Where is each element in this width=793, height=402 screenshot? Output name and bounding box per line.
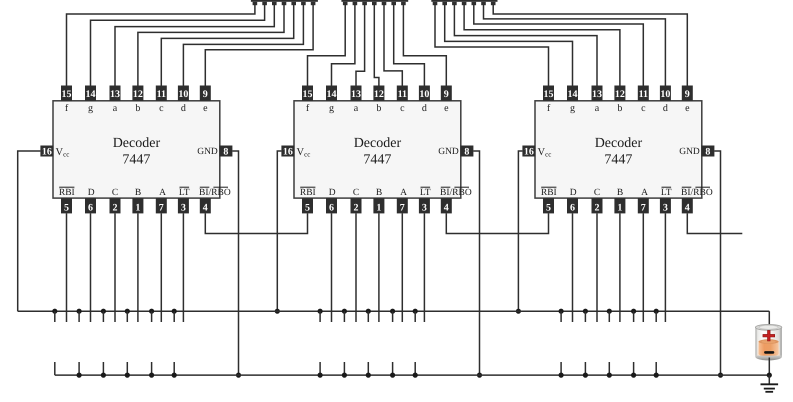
wire J3.6 to U3 pin 10: [484, 5, 666, 86]
svg-text:15: 15: [303, 89, 313, 100]
7-segment display connector J3 (edge bar): [431, 0, 497, 2]
wire +V bus to battery positive: [768, 311, 770, 324]
junction/stub on +V bus (U1 col 5): [149, 309, 154, 314]
J3 pin 7: [491, 2, 496, 5]
svg-text:A: A: [400, 188, 407, 198]
stub/junction on ground bus (U1): [126, 362, 128, 375]
J1 pin 6: [301, 2, 306, 5]
svg-text:6: 6: [329, 203, 334, 214]
junction/stub on +V bus (U2 col 4): [390, 309, 395, 314]
wire J1.5 to U1 pin 11: [161, 5, 293, 86]
svg-text:C: C: [112, 188, 118, 198]
svg-text:LT: LT: [661, 188, 672, 198]
J2 pin 3: [362, 2, 367, 5]
J3 pin 4: [462, 2, 467, 5]
svg-text:1: 1: [376, 203, 381, 214]
svg-text:b: b: [617, 103, 622, 114]
svg-text:9: 9: [444, 89, 449, 100]
junction U2 Vcc on +V bus: [275, 309, 280, 314]
J1 pin 2: [262, 2, 267, 5]
J2 pin 6: [391, 2, 396, 5]
junction U3 GND on ground bus: [718, 373, 723, 378]
stub/junction on ground bus (U2): [343, 362, 345, 375]
svg-text:GND: GND: [679, 147, 700, 157]
svg-text:e: e: [203, 103, 208, 114]
J1 pin 4: [282, 2, 287, 5]
svg-text:A: A: [641, 188, 648, 198]
wire U3 pin 4 BI/RBO stub: [687, 213, 742, 233]
wire U1 pin 7 down: [160, 213, 162, 322]
wire U3 pin 1 down: [619, 213, 621, 322]
decoder U3 7447 body: [535, 101, 702, 198]
wire U2 pin 2 down: [355, 213, 357, 322]
junction/stub on +V bus (U1 col 2): [77, 309, 82, 314]
ground symbol: [761, 383, 779, 385]
wire J3.1 to U3 pin 15: [435, 5, 549, 86]
J3 pin 6: [481, 2, 486, 5]
svg-text:d: d: [181, 103, 186, 114]
U3 pin 9 (e): [682, 86, 693, 101]
wire J1.6 to U1 pin 10: [183, 5, 303, 86]
svg-text:12: 12: [374, 89, 384, 100]
wire U2 pin 1 down: [378, 213, 380, 322]
wire J3.2 to U3 pin 14: [445, 5, 573, 86]
junction/stub on +V bus (U3 col 1): [559, 309, 564, 314]
svg-text:a: a: [113, 103, 118, 114]
ground bus left end riser: [54, 362, 56, 375]
stub/junction on ground bus (U1): [78, 362, 80, 375]
U2 pin 3 (LT): [419, 198, 430, 213]
U2 pin 10 (d): [419, 86, 430, 101]
svg-text:B: B: [135, 188, 141, 198]
junction/stub on +V bus (U1 col 6): [172, 309, 177, 314]
svg-text:GND: GND: [197, 147, 218, 157]
svg-text:7447: 7447: [363, 153, 391, 168]
J1 pin 3: [272, 2, 277, 5]
U2 pin 8 (GND): [460, 146, 473, 157]
svg-text:16: 16: [283, 147, 293, 158]
svg-text:14: 14: [568, 89, 578, 100]
U3 pin 2 (C): [592, 198, 603, 213]
wire J1.7 to U1 pin 9: [205, 5, 313, 86]
svg-text:RBI: RBI: [59, 188, 75, 198]
U1 pin 7 (A): [156, 198, 167, 213]
svg-text:g: g: [329, 103, 334, 114]
svg-text:12: 12: [133, 89, 143, 100]
svg-text:7: 7: [400, 203, 405, 214]
U1 pin 14 (g): [85, 86, 96, 101]
U2 pin 1 (B): [373, 198, 384, 213]
svg-text:2: 2: [113, 203, 118, 214]
stub/junction on ground bus (U2): [392, 362, 394, 375]
wire J2.5 to U2 pin 11: [384, 5, 402, 86]
svg-text:8: 8: [223, 147, 228, 158]
wire J2.4 to U2 pin 12: [374, 5, 379, 86]
svg-text:15: 15: [62, 89, 72, 100]
wire J2.2 to U2 pin 14: [332, 5, 355, 86]
svg-text:b: b: [376, 103, 381, 114]
wire J3.3 to U3 pin 13: [454, 5, 597, 86]
svg-text:BI/RBO: BI/RBO: [440, 188, 472, 198]
svg-text:7447: 7447: [604, 153, 632, 168]
U2 pin 12 (b): [373, 86, 384, 101]
svg-text:12: 12: [615, 89, 625, 100]
wire U2 pin 8 GND to ground bus: [473, 151, 479, 375]
wire U2 pin 16 Vcc to +V bus: [277, 151, 281, 311]
junction/stub on +V bus (U1 col 1): [52, 309, 57, 314]
junction/stub on +V bus (U2 col 2): [342, 309, 347, 314]
wire U1 pin 16 Vcc to +V bus: [18, 151, 41, 311]
svg-text:3: 3: [181, 203, 186, 214]
svg-text:13: 13: [592, 89, 602, 100]
svg-text:LT: LT: [420, 188, 431, 198]
wire U2 pin 4 BI/RBO to U3 pin 5 RBI: [446, 213, 548, 233]
svg-text:D: D: [570, 188, 577, 198]
svg-text:c: c: [641, 103, 646, 114]
7-segment display connector J2 (edge bar): [341, 0, 408, 2]
svg-text:14: 14: [327, 89, 337, 100]
svg-text:c: c: [400, 103, 405, 114]
wire J1.4 to U1 pin 12: [138, 5, 284, 86]
U1 pin 4 (BI/RBO): [200, 198, 211, 213]
wire U2 pin 7 down: [401, 213, 403, 322]
J1 pin 1: [253, 2, 258, 5]
wire U1 pin 1 down: [137, 213, 139, 322]
svg-text:B: B: [617, 188, 623, 198]
U1 pin 9 (e): [200, 86, 211, 101]
U3 pin 1 (B): [614, 198, 625, 213]
stub/junction on ground bus (U2): [414, 362, 416, 375]
stub/junction on ground bus (U3): [560, 362, 562, 375]
svg-text:11: 11: [398, 89, 407, 100]
wire U2 pin 3 down: [423, 213, 425, 322]
U3 pin 11 (c): [638, 86, 649, 101]
junction/stub on +V bus (U3 col 5): [654, 309, 659, 314]
U2 pin 14 (g): [326, 86, 337, 101]
stub/junction on ground bus (U1): [102, 362, 104, 375]
junction U1 GND on ground bus: [236, 373, 241, 378]
U3 pin 8 (GND): [701, 146, 714, 157]
wire U3 pin 7 down: [642, 213, 644, 322]
svg-text:RBI: RBI: [541, 188, 557, 198]
svg-text:C: C: [353, 188, 359, 198]
svg-text:13: 13: [351, 89, 361, 100]
svg-text:7: 7: [159, 203, 164, 214]
svg-text:GND: GND: [438, 147, 459, 157]
svg-text:4: 4: [444, 203, 449, 214]
U1 pin 6 (D): [85, 198, 96, 213]
wire U1 pin 2 down: [114, 213, 116, 322]
svg-text:8: 8: [464, 147, 469, 158]
svg-text:d: d: [663, 103, 668, 114]
U2 pin 4 (BI/RBO): [441, 198, 452, 213]
J1 pin 5: [291, 2, 296, 5]
wire J3.4 to U3 pin 12: [464, 5, 620, 86]
U1 pin 12 (b): [132, 86, 143, 101]
U2 pin 2 (C): [351, 198, 362, 213]
wire U1 pin 3 down: [182, 213, 184, 322]
junction/stub on +V bus (U1 col 3): [101, 309, 106, 314]
svg-text:6: 6: [570, 203, 575, 214]
U1 pin 10 (d): [178, 86, 189, 101]
svg-text:3: 3: [663, 203, 668, 214]
junction U3 Vcc on +V bus: [516, 309, 521, 314]
ground bus (node GND): [55, 374, 770, 376]
+V bus (node VCC): [18, 310, 770, 312]
wire U3 pin 2 down: [596, 213, 598, 322]
wire battery negative to ground bus: [768, 358, 770, 376]
wire to ground symbol: [768, 375, 770, 384]
junction/stub on +V bus (U3 col 2): [583, 309, 588, 314]
U1 pin 16 (Vcc): [40, 146, 53, 157]
stub/junction on ground bus (U2): [367, 362, 369, 375]
svg-text:5: 5: [64, 203, 69, 214]
svg-text:5: 5: [546, 203, 551, 214]
wire J3.5 to U3 pin 11: [474, 5, 644, 86]
junction U2 GND on ground bus: [477, 373, 482, 378]
stub/junction on ground bus (U3): [655, 362, 657, 375]
svg-text:10: 10: [660, 89, 670, 100]
wire J1.2 to U1 pin 14: [91, 5, 265, 86]
U2 pin 16 (Vcc): [281, 146, 294, 157]
svg-text:4: 4: [685, 203, 690, 214]
wire U1 pin 5 down across Vcc bus: [66, 213, 68, 322]
U3 pin 16 (Vcc): [522, 146, 535, 157]
svg-text:14: 14: [86, 89, 96, 100]
junction/stub on +V bus (U3 col 3): [607, 309, 612, 314]
svg-text:9: 9: [685, 89, 690, 100]
svg-text:e: e: [685, 103, 690, 114]
J2 pin 7: [401, 2, 406, 5]
U1 pin 3 (LT): [178, 198, 189, 213]
U2 pin 6 (D): [326, 198, 337, 213]
U1 pin 2 (C): [110, 198, 121, 213]
stub/junction on ground bus (U3): [633, 362, 635, 375]
wire J2.6 to U2 pin 10: [394, 5, 425, 86]
U2 pin 7 (A): [397, 198, 408, 213]
svg-text:a: a: [595, 103, 600, 114]
svg-text:c: c: [159, 103, 164, 114]
svg-text:16: 16: [524, 147, 534, 158]
svg-text:e: e: [444, 103, 449, 114]
wire U1 pin 4 BI/RBO to U2 pin 5 RBI: [205, 213, 307, 233]
svg-text:b: b: [135, 103, 140, 114]
wire J2.7 to U2 pin 9: [403, 5, 446, 86]
svg-text:Decoder: Decoder: [595, 136, 643, 151]
stub/junction on ground bus (U3): [608, 362, 610, 375]
stub/junction on ground bus (U2): [319, 362, 321, 375]
svg-text:4: 4: [203, 203, 208, 214]
J2 pin 2: [353, 2, 358, 5]
J1 pin 7: [311, 2, 316, 5]
U1 pin 8 (GND): [219, 146, 232, 157]
U1 pin 11 (c): [156, 86, 167, 101]
svg-text:6: 6: [88, 203, 93, 214]
wire J2.3 to U2 pin 13: [356, 5, 365, 86]
svg-text:RBI: RBI: [300, 188, 316, 198]
J2 pin 5: [382, 2, 387, 5]
wire U1 pin 6 down: [90, 213, 92, 322]
svg-text:8: 8: [705, 147, 710, 158]
svg-text:15: 15: [544, 89, 554, 100]
svg-text:D: D: [329, 188, 336, 198]
svg-text:16: 16: [42, 147, 52, 158]
7-segment display connector J1 (edge bar): [251, 0, 318, 2]
svg-text:d: d: [422, 103, 427, 114]
svg-text:C: C: [594, 188, 600, 198]
U3 pin 5 (RBI): [543, 198, 554, 213]
svg-text:Decoder: Decoder: [113, 136, 161, 151]
svg-text:10: 10: [178, 89, 188, 100]
U2 pin 9 (e): [441, 86, 452, 101]
svg-text:1: 1: [617, 203, 622, 214]
svg-text:7: 7: [641, 203, 646, 214]
svg-text:2: 2: [595, 203, 600, 214]
wire U3 pin 6 down: [572, 213, 574, 322]
U2 pin 15 (f): [302, 86, 313, 101]
U1 pin 1 (B): [132, 198, 143, 213]
U3 pin 6 (D): [567, 198, 578, 213]
decoder U1 7447 body: [53, 101, 220, 198]
U1 pin 5 (RBI): [61, 198, 72, 213]
J3 pin 5: [472, 2, 477, 5]
U2 pin 13 (a): [351, 86, 362, 101]
U3 pin 13 (a): [592, 86, 603, 101]
junction/stub on +V bus (U2 col 5): [413, 309, 418, 314]
svg-text:LT: LT: [179, 188, 190, 198]
junction/stub on +V bus (U1 col 4): [125, 309, 130, 314]
stub/junction on ground bus (U3): [584, 362, 586, 375]
wire U2 pin 6 down: [331, 213, 333, 322]
svg-text:11: 11: [639, 89, 648, 100]
junction ground bus / battery: [767, 373, 772, 378]
svg-text:13: 13: [110, 89, 120, 100]
wire U3 pin 8 GND to ground bus: [714, 151, 720, 375]
J2 pin 4: [372, 2, 377, 5]
wire U1 pin 8 GND to ground bus: [232, 151, 238, 375]
U1 pin 13 (a): [110, 86, 121, 101]
stub/junction on ground bus (U1): [173, 362, 175, 375]
svg-text:10: 10: [419, 89, 429, 100]
J3 pin 1: [433, 2, 438, 5]
U1 pin 15 (f): [61, 86, 72, 101]
junction/stub on +V bus (U3 col 4): [631, 309, 636, 314]
svg-text:9: 9: [203, 89, 208, 100]
junction/stub on +V bus (U2 col 3): [366, 309, 371, 314]
svg-text:1: 1: [135, 203, 140, 214]
J2 pin 1: [343, 2, 348, 5]
wire J1.1 to U1 pin 15: [67, 5, 255, 86]
svg-text:2: 2: [354, 203, 359, 214]
J3 pin 2: [442, 2, 447, 5]
U2 pin 5 (RBI): [302, 198, 313, 213]
svg-text:Decoder: Decoder: [354, 136, 402, 151]
wire J3.7 to U3 pin 9: [493, 5, 687, 86]
U2 pin 11 (c): [397, 86, 408, 101]
U3 pin 7 (A): [638, 198, 649, 213]
U3 pin 3 (LT): [660, 198, 671, 213]
wire U3 pin 16 Vcc to +V bus: [518, 151, 522, 311]
svg-text:a: a: [354, 103, 359, 114]
svg-text:BI/RBO: BI/RBO: [199, 188, 231, 198]
svg-text:11: 11: [157, 89, 166, 100]
U3 pin 15 (f): [543, 86, 554, 101]
svg-text:g: g: [570, 103, 575, 114]
U3 pin 4 (BI/RBO): [682, 198, 693, 213]
svg-text:D: D: [88, 188, 95, 198]
svg-text:g: g: [88, 103, 93, 114]
svg-text:3: 3: [422, 203, 427, 214]
wire U3 pin 3 down: [664, 213, 666, 322]
svg-text:B: B: [376, 188, 382, 198]
svg-text:A: A: [159, 188, 166, 198]
U3 pin 12 (b): [614, 86, 625, 101]
svg-text:5: 5: [305, 203, 310, 214]
J3 pin 3: [452, 2, 457, 5]
U3 pin 10 (d): [660, 86, 671, 101]
wire J2.1 to U2 pin 15: [308, 5, 346, 86]
junction/stub on +V bus (U2 col 1): [318, 309, 323, 314]
battery BT1: [755, 325, 781, 361]
decoder U2 7447 body: [294, 101, 461, 198]
wire J1.3 to U1 pin 13: [115, 5, 274, 86]
U3 pin 14 (g): [567, 86, 578, 101]
svg-text:BI/RBO: BI/RBO: [681, 188, 713, 198]
svg-text:7447: 7447: [122, 153, 150, 168]
stub/junction on ground bus (U1): [151, 362, 153, 375]
